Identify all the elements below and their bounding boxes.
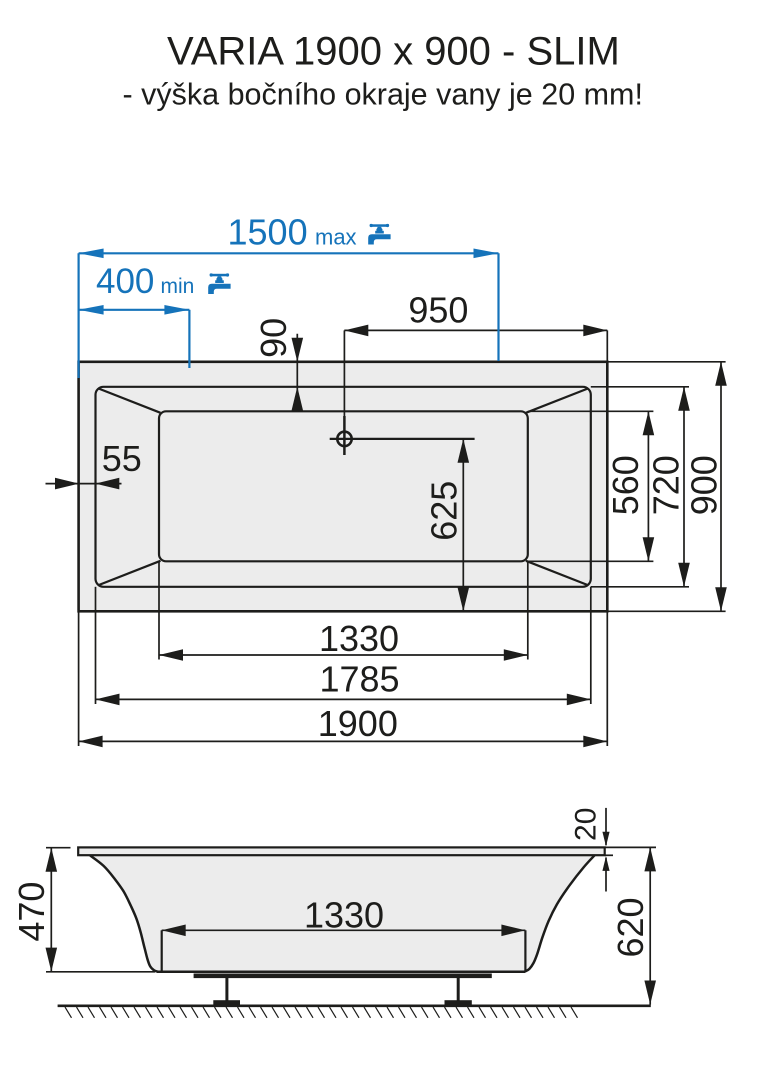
svg-text:1330: 1330 (319, 618, 399, 659)
svg-text:950: 950 (408, 289, 468, 330)
svg-text:max: max (315, 225, 357, 250)
svg-text:1500: 1500 (228, 212, 308, 253)
svg-text:560: 560 (605, 455, 646, 515)
svg-text:1900: 1900 (318, 703, 398, 744)
svg-text:620: 620 (610, 897, 651, 957)
svg-text:20: 20 (570, 808, 603, 841)
svg-text:1785: 1785 (319, 658, 399, 699)
svg-text:55: 55 (102, 438, 142, 479)
svg-text:400: 400 (96, 262, 154, 301)
svg-text:900: 900 (684, 455, 725, 515)
svg-text:90: 90 (253, 318, 294, 358)
svg-text:- výška bočního okraje vany je: - výška bočního okraje vany je 20 mm! (123, 78, 643, 112)
svg-text:1330: 1330 (304, 895, 384, 936)
svg-text:min: min (161, 275, 195, 298)
svg-text:470: 470 (11, 882, 52, 942)
svg-text:VARIA 1900 x 900 - SLIM: VARIA 1900 x 900 - SLIM (167, 30, 620, 74)
svg-text:720: 720 (645, 455, 686, 515)
svg-text:625: 625 (423, 481, 464, 541)
